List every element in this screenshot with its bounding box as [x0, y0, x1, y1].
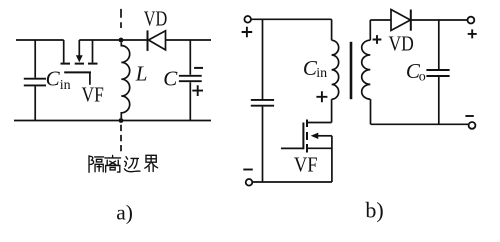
isolation boundary dashed line upper — [120, 9, 122, 28]
node bottom (junction dot) — [119, 118, 124, 123]
output terminal plus (circle) — [468, 17, 475, 24]
transistor VF source leg — [92, 40, 94, 63]
transformer core bar — [350, 42, 353, 99]
transistor VF body leg — [78, 40, 80, 56]
svg-text:VF: VF — [294, 153, 318, 177]
svg-text:o: o — [419, 70, 426, 85]
diode VD cathode bar — [147, 30, 149, 51]
transistor VF b body arrow — [311, 133, 319, 139]
transformer T primary bottom lead — [331, 99, 333, 122]
capacitor C plates — [179, 76, 202, 81]
capacitor input plates — [251, 100, 274, 106]
char bian (边) — [124, 157, 140, 172]
label Cin — [46, 66, 71, 93]
transistor VF b source leg — [308, 147, 332, 149]
capacitor C branch wires — [189, 40, 191, 121]
svg-text:VD: VD — [389, 32, 414, 56]
capacitor Co plates — [426, 70, 449, 76]
capacitor input branch wires — [262, 19, 264, 182]
label VD — [144, 6, 168, 30]
char li (离) — [105, 155, 121, 172]
diode VD b triangle — [391, 10, 410, 31]
svg-text:VD: VD — [144, 6, 168, 30]
capacitor Cin plates — [24, 79, 46, 86]
label a) — [116, 201, 133, 225]
label VF — [82, 83, 104, 107]
diode VD b cathode bar — [410, 10, 412, 31]
capacitor Cin branch wires — [34, 40, 36, 121]
minus sign of C — [194, 67, 203, 69]
transistor VF channel tick source — [88, 63, 98, 65]
plus polarity secondary — [373, 35, 382, 44]
output terminal minus (circle) — [469, 122, 476, 129]
transistor VF gate bar — [64, 71, 91, 73]
minus sign output — [465, 115, 473, 117]
plus sign input — [242, 27, 253, 38]
transistor VF b source vertical — [331, 136, 333, 182]
minus sign input — [243, 169, 253, 171]
label b) — [365, 198, 383, 223]
transformer T primary winding — [332, 40, 339, 99]
transformer T primary top lead — [331, 19, 333, 40]
wire top rail middle segment (node to diode) — [79, 39, 147, 41]
transistor VF channel tick drain — [61, 63, 71, 65]
label Co — [406, 59, 426, 85]
wire bottom rail — [14, 120, 211, 122]
wire diode to output — [411, 19, 468, 21]
label VF b — [294, 153, 318, 177]
transformer T secondary bottom lead — [370, 99, 372, 124]
plus sign output — [468, 29, 477, 38]
transformer T secondary winding — [362, 40, 371, 99]
input terminal minus (circle) — [246, 179, 253, 186]
char jie (界) — [145, 155, 158, 171]
svg-text:a): a) — [116, 201, 133, 225]
transistor VF b channel tick source — [306, 144, 308, 153]
label VD b — [389, 32, 414, 56]
wire bottom rail b — [252, 181, 332, 183]
input terminal plus (circle) — [244, 16, 251, 23]
plus sign of C — [192, 85, 203, 96]
char ge (隔) — [89, 156, 104, 172]
transistor VF channel tick middle — [75, 63, 84, 65]
node top (junction dot) — [119, 38, 124, 43]
svg-text:in: in — [60, 78, 71, 93]
transistor VF b gate lead — [281, 147, 303, 149]
transistor VF drain leg — [63, 40, 65, 63]
svg-text:VF: VF — [82, 83, 104, 107]
svg-text:L: L — [135, 62, 148, 86]
label C — [163, 66, 178, 90]
svg-text:in: in — [316, 66, 327, 81]
transformer T secondary top lead — [369, 20, 371, 40]
wire top rail left segment — [16, 39, 64, 41]
diode VD triangle — [149, 31, 166, 50]
svg-text:C: C — [163, 66, 178, 90]
transistor VF b drain leg — [308, 122, 332, 124]
svg-text:b): b) — [365, 198, 383, 223]
label L — [135, 62, 148, 86]
label Cin (primary) — [303, 56, 327, 81]
wire secondary bottom rail — [371, 123, 469, 125]
isolation boundary dashed line lower — [120, 125, 122, 152]
wire top rail b — [251, 18, 332, 20]
plus polarity primary — [316, 91, 327, 102]
text isolation boundary (Chinese) — [89, 155, 158, 172]
inductor L — [121, 42, 129, 118]
capacitor Co branch wires — [438, 20, 440, 124]
transistor VF gate lead — [89, 72, 91, 84]
wire top rail right segment — [166, 39, 212, 41]
wire secondary top rail — [370, 19, 391, 21]
transistor VF body arrow — [76, 55, 83, 62]
svg-text:C: C — [46, 66, 61, 90]
transistor VF b channel tick middle — [306, 132, 308, 140]
transistor VF b gate bar — [302, 123, 304, 150]
transistor VF b channel tick drain — [306, 120, 308, 128]
